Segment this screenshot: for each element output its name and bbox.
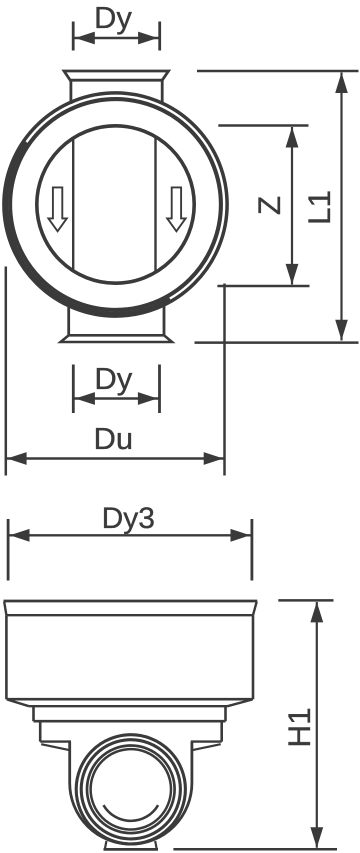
dimension Dy (top) right tick [158, 22, 161, 51]
outlet bottom arc [104, 805, 159, 821]
H1 top arrow [310, 602, 323, 623]
foot base line [104, 848, 159, 851]
cup lip left slant [4, 602, 6, 616]
cup top edge [4, 600, 258, 603]
Dy3 dimension line [8, 534, 252, 536]
H1 bottom extension line [173, 848, 337, 851]
svg-text:H1: H1 [281, 707, 317, 747]
cup left side [5, 615, 8, 699]
inner bore circle [37, 126, 194, 283]
bottom flange neck left [67, 305, 70, 335]
left chord [72, 139, 74, 271]
Dy3 right arrow [231, 529, 251, 542]
foot left side [105, 841, 107, 849]
outlet outer circle 1 [76, 735, 185, 844]
left bevel [8, 700, 29, 707]
bottom flange lip [61, 335, 172, 342]
step2 left side [39, 721, 42, 741]
collar bottom edge [34, 720, 226, 723]
cup lip bottom edge [6, 614, 253, 616]
outlet U wall [70, 742, 192, 845]
right flow arrow (hollow) [167, 187, 185, 231]
L1 bottom arrow [335, 320, 348, 341]
L1 top arrow [335, 73, 348, 94]
dimension Dy (top) left arrow [75, 32, 95, 45]
cup right side [252, 615, 255, 699]
step2 bottom edge left [40, 740, 71, 742]
top flange neck left [70, 80, 73, 104]
collar right side [224, 706, 227, 721]
Z bottom arrow [286, 264, 299, 285]
outlet outer circle 2 [81, 740, 180, 839]
Du left extension line [5, 267, 8, 476]
Dy3 left tick [7, 519, 10, 581]
dimension Dy (bottom) line [73, 397, 159, 400]
top flange neck right [161, 80, 164, 104]
left wedge slant [41, 744, 70, 750]
collar left side [32, 706, 35, 721]
dimension Dy (top) right arrow [138, 32, 158, 45]
bottom flange neck right [163, 305, 166, 335]
Du right arrow [204, 452, 224, 465]
top flange lip [64, 71, 169, 80]
cup lip right slant [253, 602, 257, 616]
Du right extension line [223, 284, 226, 476]
outer ring inner circle [10, 99, 221, 310]
H1 top extension line [278, 599, 333, 602]
right wedge slant [192, 744, 221, 750]
left flow arrow (hollow) [48, 187, 66, 231]
L1 top extension line [197, 70, 359, 73]
outer ring filler arc (lower-left) [7, 142, 170, 313]
H1 bottom arrow [310, 827, 323, 848]
dimension Dy (bottom) right arrow [138, 392, 158, 405]
Z dimension line [291, 127, 293, 285]
svg-text:Du: Du [93, 421, 133, 456]
cup bottom edge [7, 698, 254, 701]
Z top extension line [218, 124, 308, 127]
step2 bottom edge right [191, 740, 222, 742]
outlet inner circle 1 [87, 746, 175, 834]
H1 dimension line [316, 602, 318, 848]
svg-text:Z: Z [251, 196, 287, 215]
Z bottom extension line [217, 285, 309, 288]
svg-text:L1: L1 [301, 190, 337, 225]
dimension Dy (top) line [73, 37, 160, 40]
L1 dimension line [340, 73, 342, 341]
dimension Dy (top) left tick [72, 22, 75, 51]
svg-text:Dy: Dy [94, 0, 132, 35]
right bevel [228, 700, 252, 707]
step2 right side [220, 721, 223, 741]
outlet inner circle 2 [91, 749, 171, 829]
right chord [154, 138, 156, 273]
foot right side [155, 841, 157, 849]
Du dimension line [6, 457, 225, 459]
Du left arrow [7, 452, 27, 465]
svg-text:Dy: Dy [94, 361, 132, 396]
collar top edge [29, 705, 228, 707]
L1 bottom extension line [195, 341, 359, 344]
Z top arrow [286, 127, 299, 148]
dimension Dy (bottom) left tick [72, 365, 75, 414]
dimension Dy (bottom) right tick [158, 365, 161, 414]
Dy3 right tick [250, 519, 253, 581]
Dy3 left arrow [10, 529, 30, 542]
dimension Dy (bottom) left arrow [75, 392, 95, 405]
outer ring outer circle [4, 93, 227, 316]
svg-text:Dy3: Dy3 [102, 502, 155, 535]
